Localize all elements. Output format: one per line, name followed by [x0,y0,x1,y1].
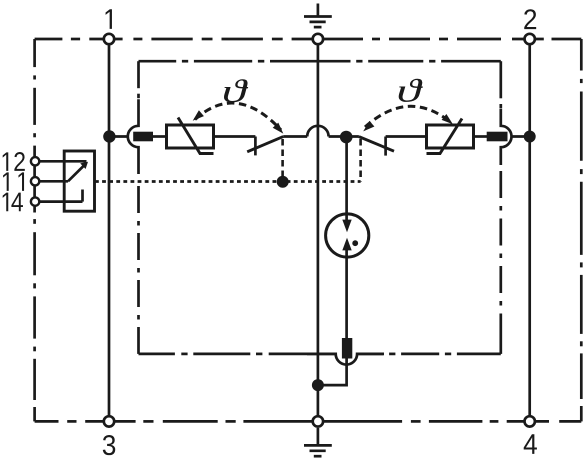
thermal monitoring arc 1 (dashed) with arrowheads [195,103,281,130]
dot on mech line below switch1 [277,176,289,188]
thermal monitoring arc 2 (dashed) with arrowheads [365,106,451,127]
main horizontal wire, left segment from L1 to hump [109,135,127,138]
wire varistor2 to disconnect element [474,135,488,138]
junction dot GDT branch [340,131,353,144]
hump of inner border (right) [501,109,512,165]
wire disconnect element to varistor1 [153,135,167,138]
wire right hump to right line [512,135,530,138]
terminal 12 circle [31,157,39,165]
wire switch1 pivot to centre hump [283,135,307,138]
GDT branch vertical line upper [345,137,348,221]
terminal 11 circle [31,177,39,185]
wire switch2 contact to varistor2 [386,135,427,138]
label 11 [3,172,24,191]
arc 1 arrowheads [193,110,284,133]
hump of inner border (left), wire passes through [128,99,139,174]
thermal disconnect switch 2 [359,137,394,182]
junction dot right line [524,131,536,143]
GDT up arrow [342,238,351,251]
top ground symbol [304,4,332,28]
white fills + terminal circles [104,34,535,427]
bottom ground symbol [304,428,332,456]
terminal 3 circle [104,416,114,426]
GDT down arrow [342,220,351,233]
terminal 4 circle [525,416,535,426]
label 4 [524,434,537,454]
wire varistor1 to switch1 contact [214,135,256,138]
wire centre hump to GDT node to switch2 [329,135,359,138]
varistor RV2 [427,119,474,154]
terminal 11 wire [35,180,68,183]
terminal 1 circle [104,34,114,44]
junction dot on centre line [312,379,324,391]
outer enclosure border right (dash-dot) [580,39,583,71]
terminal 14 wire [35,200,82,203]
terminal 14 circle [31,197,39,205]
thermal disconnect element (filled) left [133,132,153,142]
inner protection-circuit border right (dash-dot) [499,61,502,98]
theta symbol 2 [399,79,423,102]
hump of inner border (bottom) [307,354,384,365]
bottom PE terminal circle [313,416,323,426]
top PE terminal circle [313,34,323,44]
terminal 2 circle [525,34,535,44]
GDT branch below hump, L to centre line [318,359,347,386]
GDT gas dot [352,240,358,246]
contact blade 11->12 with arrow [68,165,85,182]
label 1 [106,9,112,29]
theta symbol 1 [224,79,248,102]
label 3 [103,435,115,455]
changeover contact box [64,151,94,211]
junction dot on L1 [103,130,115,142]
outer enclosure border left (dash-dot) [33,39,36,67]
centre PE line: top ground terminal to bottom [317,39,320,421]
label 2 [524,9,536,29]
thermal disconnect switch 1 [247,137,283,182]
remote signalling contact: mechanical dotted line [95,180,361,183]
label 12 [3,152,25,171]
inner protection-circuit border bottom (dash-dot) [139,353,175,356]
arc 2 arrowheads [363,114,453,131]
label 14 [3,193,23,212]
hump of wire over centre PE line [307,126,328,137]
varistor RV1 [167,118,214,154]
left phase line L1: terminal 1 to 3 [108,39,111,421]
disconnect element (filled) bottom [342,338,352,359]
outer enclosure border bottom (dash-dot) [35,420,59,423]
outer enclosure border top (dash-dot) [35,38,63,41]
contact 14 hook [81,190,84,202]
terminal 12 wire [35,160,86,163]
inner protection-circuit border left (dash-dot) [137,61,140,88]
inner protection-circuit border top (dash-dot) [139,60,177,63]
GDT branch line lower [345,250,348,339]
right phase line: terminal 2 to 4 [528,39,531,421]
spark gap / GDT circle [326,214,369,257]
thermal disconnect element (filled) right [487,132,508,142]
